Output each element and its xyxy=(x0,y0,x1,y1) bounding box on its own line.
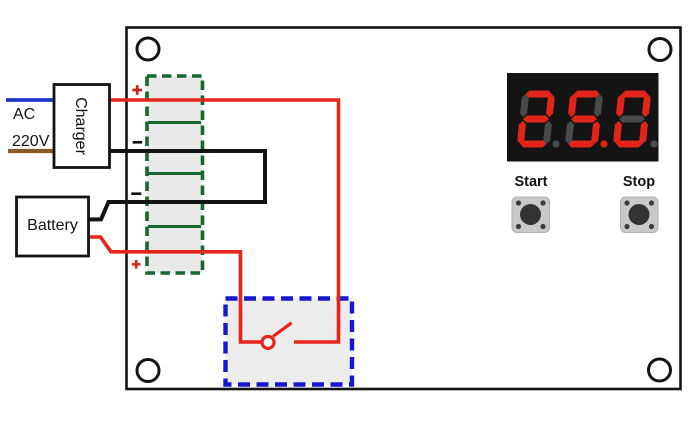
battery box xyxy=(17,197,89,256)
wire: red charger + to switch xyxy=(109,100,339,342)
display U1 background xyxy=(507,73,659,162)
board outline xyxy=(127,28,681,390)
terminal separator 3 xyxy=(148,225,201,228)
mounting hole top-left xyxy=(137,38,159,60)
charger box xyxy=(54,85,110,168)
svg-text:220V: 220V xyxy=(12,133,50,150)
terminal block TB1 (green dashed) xyxy=(147,76,203,273)
label + (battery) xyxy=(132,260,141,269)
wire: blue AC line xyxy=(6,98,55,102)
wire: brown AC line xyxy=(8,149,55,153)
terminal separator 1 xyxy=(148,121,201,124)
display digit 2 xyxy=(517,91,556,148)
start button SW1 xyxy=(512,197,550,233)
mounting hole bottom-left xyxy=(137,360,159,382)
display dp3 (off) xyxy=(650,140,657,147)
label - (battery) xyxy=(131,192,141,195)
display digit 5 xyxy=(565,91,604,148)
display dp2 (on) xyxy=(600,140,607,147)
terminal separator 2 xyxy=(148,172,201,175)
wire: red battery + to switch xyxy=(88,237,262,342)
mounting hole top-right xyxy=(649,39,671,61)
svg-text:Battery: Battery xyxy=(27,217,78,234)
label - (charger output) xyxy=(133,141,143,144)
label + (charger output) xyxy=(132,85,142,95)
display dp1 (off) xyxy=(552,140,559,147)
relay box (blue dashed) xyxy=(226,299,353,385)
svg-text:Stop: Stop xyxy=(623,174,655,190)
mounting hole bottom-right xyxy=(649,359,671,381)
svg-text:Start: Start xyxy=(514,174,547,190)
stop button SW2 xyxy=(621,197,659,233)
svg-text:AC: AC xyxy=(13,106,35,123)
wire: black charger - return xyxy=(88,151,265,219)
switch S1 lever xyxy=(273,323,292,337)
svg-text:Charger: Charger xyxy=(72,97,89,155)
switch S1 contact pole xyxy=(262,336,274,348)
display digit 0 xyxy=(613,91,652,148)
